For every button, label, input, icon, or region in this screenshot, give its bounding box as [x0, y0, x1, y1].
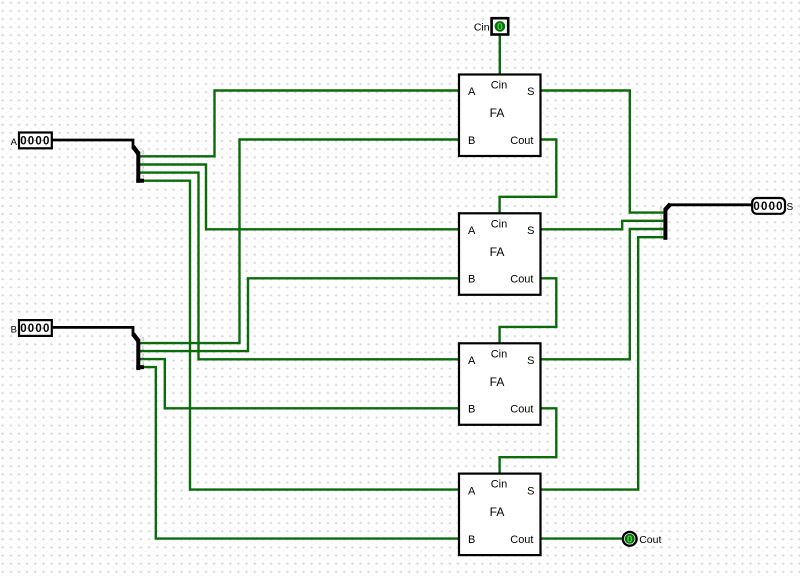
- svg-text:Cin: Cin: [474, 22, 490, 34]
- svg-text:S: S: [787, 202, 794, 213]
- svg-text:1: 1: [142, 159, 145, 165]
- svg-text:A: A: [11, 137, 18, 148]
- svg-text:0: 0: [142, 150, 145, 156]
- svg-text:2: 2: [142, 354, 145, 360]
- svg-text:1: 1: [660, 215, 663, 221]
- svg-text:0000: 0000: [20, 136, 50, 148]
- svg-text:B: B: [11, 324, 17, 335]
- svg-text:3: 3: [660, 232, 663, 238]
- svg-text:0000: 0000: [753, 201, 783, 213]
- svg-text:0: 0: [497, 21, 503, 33]
- svg-text:3: 3: [142, 175, 145, 181]
- svg-text:1: 1: [142, 345, 145, 351]
- svg-text:Cout: Cout: [639, 534, 661, 546]
- svg-text:2: 2: [142, 167, 145, 173]
- svg-text:2: 2: [660, 223, 663, 229]
- svg-text:3: 3: [142, 362, 145, 368]
- svg-text:0: 0: [627, 534, 633, 546]
- svg-text:0000: 0000: [20, 323, 50, 335]
- svg-text:0: 0: [142, 337, 145, 343]
- svg-text:0: 0: [660, 207, 663, 213]
